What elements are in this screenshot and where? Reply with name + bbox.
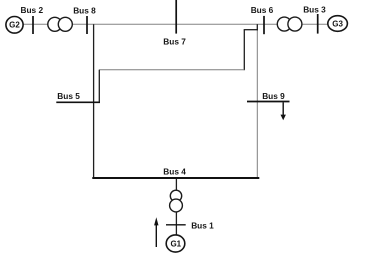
bus bar Bus 3 (317, 14, 319, 34)
svg-text:Bus 8: Bus 8 (73, 5, 96, 15)
bus bar Bus 8 (86, 16, 88, 34)
bus bar Bus 2 (32, 16, 34, 34)
svg-text:Bus 7: Bus 7 (163, 37, 186, 47)
wire: transformer T1 down to G1 (175, 211, 177, 236)
svg-text:Bus 5: Bus 5 (57, 91, 80, 101)
generator G2 (6, 17, 23, 34)
transformer T2 (between Bus2 and Bus8) (48, 17, 73, 31)
svg-text:Bus 2: Bus 2 (21, 5, 44, 15)
bus bar Bus 7 (175, 0, 177, 34)
bus bar Bus 6 (263, 16, 265, 34)
wire: mid horizontal toward Bus5 (99, 69, 244, 71)
arrow at G1 (up) (154, 217, 158, 247)
svg-text:Bus 6: Bus 6 (251, 5, 274, 15)
wire: right vertical continues to Bus4 (256, 30, 258, 178)
bus bar Bus 5 (56, 101, 100, 103)
svg-text:G1: G1 (170, 239, 181, 248)
transformer T1 (between Bus4 and Bus1) (170, 190, 183, 212)
transformer T3 (between Bus6 and Bus3) (277, 17, 302, 31)
svg-text:Bus 9: Bus 9 (262, 91, 285, 101)
svg-text:G2: G2 (9, 21, 20, 30)
wire: short vertical down into Bus5 (98, 70, 100, 103)
bus bar Bus 1 (tick) (166, 224, 186, 226)
wire: branch horizontal from right vertical (244, 29, 258, 31)
svg-text:Bus 3: Bus 3 (303, 5, 326, 15)
bus bar Bus 4 (92, 177, 259, 179)
svg-text:Bus 4: Bus 4 (163, 167, 186, 177)
wire: branch left vertical (243, 30, 245, 70)
wire: Bus6 down through Bus9 to Bus4 (right vertical) (256, 24, 258, 30)
wire: Bus4 down to transformer T1 (175, 178, 177, 191)
svg-text:Bus 1: Bus 1 (191, 220, 214, 230)
wire: main horizontal G2-Bus2-T2-Bus8-Bus7-Bus6-T3-Bus3-G3 (22, 23, 329, 25)
generator G1 (166, 235, 185, 252)
bus bar Bus 9 (247, 101, 290, 103)
generator G3 (328, 16, 348, 32)
svg-text:G3: G3 (332, 19, 343, 28)
load arrow at Bus 9 (281, 102, 286, 120)
wire: Bus8 down to Bus5 and on to Bus4 (left vertical) (93, 24, 95, 178)
